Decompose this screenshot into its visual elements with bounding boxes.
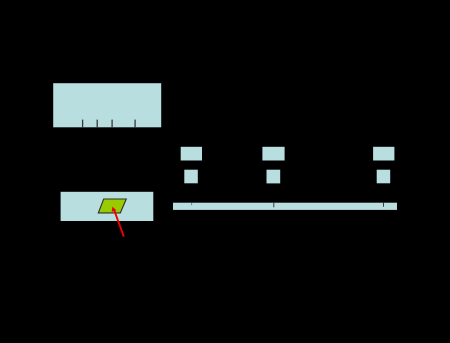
CPU pin 2 — [96, 120, 98, 128]
CPU pin 1 — [82, 120, 84, 128]
CPU pin 4 — [134, 120, 136, 128]
CPU pin 3 — [111, 120, 113, 128]
device 3 bottom box — [377, 170, 391, 184]
memory page (green parallelogram) — [98, 199, 126, 213]
pointer arrow (red) — [112, 207, 124, 237]
device 1 bottom box — [184, 170, 198, 184]
device 1 top box — [181, 147, 202, 161]
device 2 top box — [262, 147, 284, 161]
bus tap 3 — [383, 203, 385, 207]
device 2 bottom box — [267, 170, 281, 184]
memory box — [61, 192, 154, 221]
bus tap 2 — [273, 203, 275, 208]
bus bar — [173, 203, 397, 210]
bus tap 1 — [191, 203, 193, 205]
device 3 top box — [373, 147, 394, 161]
CPU box U1 — [53, 83, 161, 127]
